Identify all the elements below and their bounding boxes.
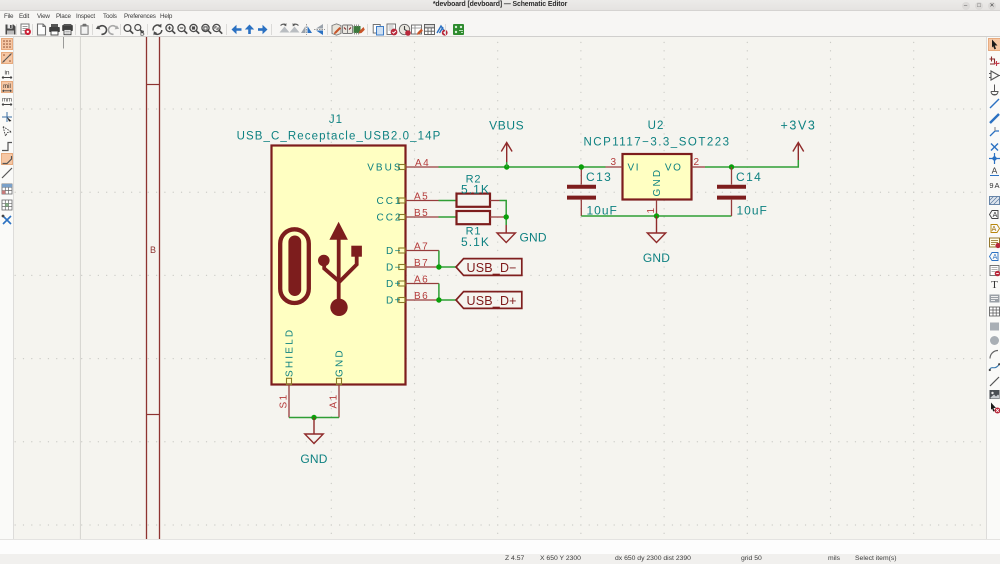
svg-text:A: A xyxy=(992,254,997,261)
svg-text:GND: GND xyxy=(643,251,670,265)
pin D+ (A6) xyxy=(386,275,439,291)
junction R1/R2/GND xyxy=(504,214,509,219)
svg-text:1: 1 xyxy=(646,208,657,214)
svg-text:GND: GND xyxy=(520,231,547,245)
svg-text:B: B xyxy=(140,31,145,37)
svg-text:5.1K: 5.1K xyxy=(461,235,490,249)
wire B7 to USB_D- label xyxy=(439,266,456,268)
svg-text:A4: A4 xyxy=(415,158,430,169)
status bar xyxy=(0,554,1000,564)
wire A6 down to B6 xyxy=(438,284,440,301)
origin tick xyxy=(63,37,65,49)
svg-text:D−: D− xyxy=(386,246,402,257)
USB-C capsule icon xyxy=(280,229,309,303)
right toolbar xyxy=(986,37,1000,539)
svg-text:D+: D+ xyxy=(386,296,402,307)
pin CC2 (B5) xyxy=(376,208,438,224)
pin D- (B7) xyxy=(386,258,439,274)
svg-text:A: A xyxy=(994,181,999,190)
window title bar xyxy=(0,0,1000,11)
svg-text:GND: GND xyxy=(652,168,663,197)
svg-text:A1: A1 xyxy=(329,393,340,408)
svg-text:CC1: CC1 xyxy=(376,196,402,207)
pin SHIELD (S1) xyxy=(279,328,296,418)
svg-text:USB_C_Receptacle_USB2.0_14P: USB_C_Receptacle_USB2.0_14P xyxy=(237,130,442,142)
svg-text:S1: S1 xyxy=(279,393,290,408)
pin D- (A7) xyxy=(386,242,439,258)
junction B6 xyxy=(436,297,441,302)
ground symbol GND3 xyxy=(647,216,665,243)
svg-text:mm: mm xyxy=(2,97,12,103)
svg-text:A5: A5 xyxy=(414,192,429,203)
wire B6 to USB_D+ label xyxy=(439,299,456,301)
sheet frame row divider top xyxy=(147,84,160,86)
svg-text:J1: J1 xyxy=(329,114,343,126)
svg-text:C14: C14 xyxy=(736,170,762,184)
U2 pin 1 xyxy=(646,200,657,217)
bottom ground rail wire xyxy=(581,215,731,217)
svg-text:CC2: CC2 xyxy=(376,213,402,224)
svg-text:USB_D+: USB_D+ xyxy=(467,294,517,308)
pin VBUS (A4) xyxy=(367,158,438,174)
svg-text:USB_D−: USB_D− xyxy=(467,261,517,275)
svg-text:C13: C13 xyxy=(586,170,612,184)
svg-text:5.1K: 5.1K xyxy=(461,182,490,196)
top toolbar xyxy=(0,22,1000,37)
svg-text:A: A xyxy=(992,212,997,219)
wire S1 to A1 xyxy=(289,417,339,419)
global label USB_D- xyxy=(456,259,522,276)
junction C13 top xyxy=(579,164,584,169)
pin CC1 (A5) xyxy=(376,192,438,208)
svg-text:A6: A6 xyxy=(414,275,429,286)
ground symbol GND1 xyxy=(305,418,323,444)
svg-text:9: 9 xyxy=(989,181,993,190)
svg-text:U2: U2 xyxy=(648,120,665,132)
svg-text:A: A xyxy=(991,226,996,233)
svg-text:10uF: 10uF xyxy=(737,204,768,218)
pin GND (A1) xyxy=(329,348,346,417)
ground symbol GND2 xyxy=(497,225,515,243)
svg-text:T: T xyxy=(991,279,998,291)
svg-text:3: 3 xyxy=(611,157,617,168)
pin D+ (B6) xyxy=(386,291,439,307)
capacitor C14 xyxy=(717,167,768,218)
menu bar xyxy=(0,11,1000,22)
svg-text:B5: B5 xyxy=(414,208,429,219)
power symbol +3V3 xyxy=(793,143,804,161)
left toolbar xyxy=(0,37,14,539)
sheet frame row divider bottom xyxy=(147,414,160,416)
wire U2 VO to +3V3 xyxy=(705,160,798,167)
wire CC2 to R1 xyxy=(439,216,457,218)
USB trident icon xyxy=(318,222,362,316)
sheet frame left line xyxy=(146,37,148,539)
svg-text:2: 2 xyxy=(694,157,700,168)
svg-text:D+: D+ xyxy=(386,279,402,290)
connector J1 body xyxy=(272,146,406,385)
capacitor C13 xyxy=(567,167,618,217)
wire R2 right down to R1 right xyxy=(500,201,507,226)
svg-text:VBUS: VBUS xyxy=(367,163,402,174)
wire CC1 to R2 xyxy=(439,200,457,202)
svg-text:B7: B7 xyxy=(414,258,429,269)
svg-text:VO: VO xyxy=(665,163,683,174)
svg-text:B6: B6 xyxy=(414,291,429,302)
svg-text:A: A xyxy=(991,166,997,176)
svg-text:mil: mil xyxy=(3,83,11,89)
svg-text:SHIELD: SHIELD xyxy=(285,328,296,377)
svg-text:GND: GND xyxy=(300,452,327,466)
VBUS rail wire xyxy=(439,166,606,168)
junction bottom rail xyxy=(654,213,659,218)
svg-text:GND: GND xyxy=(335,348,346,377)
wire A7 down to B7 xyxy=(438,251,440,268)
svg-text:in: in xyxy=(4,69,9,76)
svg-text:VBUS: VBUS xyxy=(489,119,524,133)
resistor R1 xyxy=(457,211,507,249)
U2 pin 3 xyxy=(606,157,623,168)
sheet frame right line xyxy=(159,37,161,539)
svg-text:D−: D− xyxy=(386,263,402,274)
junction VBUS xyxy=(504,164,509,169)
svg-text:B: B xyxy=(150,245,156,255)
regulator U2 body xyxy=(623,154,692,200)
horizontal scrollbar strip xyxy=(0,539,1000,554)
junction B7 xyxy=(436,264,441,269)
global label USB_D+ xyxy=(456,292,522,309)
page limit line xyxy=(79,37,81,539)
svg-text:NCP1117−3.3_SOT223: NCP1117−3.3_SOT223 xyxy=(583,136,730,148)
power symbol VBUS xyxy=(501,143,512,163)
junction S1/A1/GND xyxy=(311,415,316,420)
svg-text:+3V3: +3V3 xyxy=(781,119,817,133)
svg-text:VI: VI xyxy=(628,163,641,174)
resistor R2 xyxy=(457,174,500,207)
junction C14 top xyxy=(729,164,734,169)
svg-text:10uF: 10uF xyxy=(587,203,618,217)
svg-text:A7: A7 xyxy=(414,242,429,253)
U2 pin 2 xyxy=(692,157,706,168)
